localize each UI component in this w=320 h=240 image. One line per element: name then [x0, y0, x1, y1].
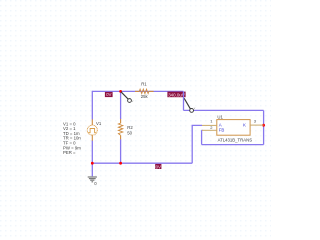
wire feedback bottom: [202, 144, 264, 146]
wire middle rail upper: [120, 91, 122, 119]
svg-text:0V: 0V: [156, 164, 161, 169]
resistor R2: [118, 119, 133, 139]
svg-text:FB: FB: [219, 128, 225, 133]
wire mid horizontal: [184, 109, 264, 111]
pin 3 stub (K): [250, 124, 264, 126]
wire A link: [192, 125, 202, 163]
node junction dot bottom mid: [119, 162, 122, 165]
voltage probe marker 1: [121, 92, 134, 103]
node junction dot K pin: [262, 124, 265, 127]
svg-text:ATL431B_TRANS: ATL431B_TRANS: [218, 138, 253, 143]
svg-text:R1: R1: [141, 82, 147, 87]
wire feedback riser: [201, 130, 203, 144]
node junction dot top: [119, 90, 122, 93]
svg-text:PER =: PER =: [63, 150, 76, 155]
IC U1 ATL431B_TRANS: [202, 115, 264, 143]
svg-text:R2: R2: [127, 125, 133, 130]
wire left rail lower: [91, 141, 93, 164]
wire right drop: [183, 91, 185, 110]
wire left rail upper: [91, 91, 93, 120]
pin 1 stub (A): [202, 124, 217, 126]
svg-text:340.0uV: 340.0uV: [168, 92, 185, 97]
pin 2 stub (FB): [202, 129, 217, 131]
svg-text:V1: V1: [96, 121, 102, 126]
wire right rail: [263, 110, 265, 144]
wire FB link: [201, 129, 204, 131]
svg-text:25k: 25k: [141, 94, 149, 99]
ground: [88, 176, 98, 186]
svg-text:K: K: [243, 123, 246, 128]
resistor R1: [135, 82, 154, 100]
node junction dot bottom left: [91, 162, 94, 165]
bias label 0V top: [105, 92, 113, 97]
V1 pulse parameter list: [63, 121, 81, 155]
svg-text:0V: 0V: [106, 92, 111, 97]
bias label 340.0uV: [167, 92, 185, 98]
wire bottom rail: [92, 162, 192, 164]
svg-text:50: 50: [127, 131, 132, 136]
voltage probe marker 2: [184, 98, 196, 112]
wire ground stem: [91, 163, 93, 176]
bias label 0V bottom: [155, 164, 161, 169]
voltage source V1: [87, 119, 102, 140]
wire top rail: [92, 90, 183, 92]
wire middle rail lower: [120, 139, 122, 163]
svg-text:U1: U1: [217, 115, 223, 120]
